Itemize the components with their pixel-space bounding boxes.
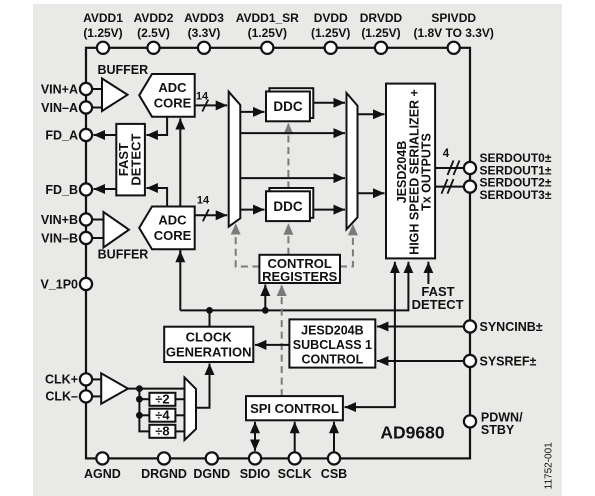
wire SERDOUT pair 1 (435, 161, 464, 176)
svg-text:BUFFER: BUFFER (98, 247, 149, 261)
dashed control bus to output mux 2 (340, 224, 353, 267)
label FAST DETECT (serializer input) (412, 284, 464, 312)
pin CSB (321, 452, 347, 481)
svg-text:ADC: ADC (158, 80, 187, 95)
wire div2 stub (139, 398, 149, 400)
clock input buffer triangle (101, 373, 128, 404)
svg-text:(1.8V TO 3.3V): (1.8V TO 3.3V) (413, 26, 493, 40)
wire div4 stub (139, 414, 149, 416)
svg-text:14: 14 (196, 90, 209, 102)
divider /2 box (149, 392, 175, 407)
wire fast detect to FD_A pin (94, 134, 117, 136)
DDC 1 stack (266, 88, 313, 121)
wire mux1 to DDC2 (240, 209, 264, 211)
svg-text:CORE: CORE (154, 95, 192, 110)
junction div4 (136, 412, 143, 419)
junction clock main (136, 385, 143, 392)
wire ADC A 14-bit bus (195, 90, 228, 111)
wire fast detect to FD_B pin (94, 188, 117, 190)
output mux 2 (347, 93, 358, 229)
pin FD_B (45, 183, 92, 197)
svg-text:V_1P0: V_1P0 (40, 277, 78, 291)
pin SCLK (278, 452, 312, 481)
buffer B amp triangle (104, 212, 130, 248)
pin SYSREF (464, 354, 537, 368)
wire divider feed vertical (139, 389, 149, 432)
wire div2 out (175, 398, 184, 400)
pin SPIVDD (413, 11, 493, 54)
svg-text:AD9680: AD9680 (380, 423, 444, 443)
wire clock vertical to ADC cores (179, 118, 181, 310)
svg-text:(1.25V): (1.25V) (248, 26, 287, 40)
wire SYNCINB to JESD204B subclass control (377, 326, 464, 328)
DDC 2 stack (266, 188, 313, 221)
junction div2 (136, 396, 143, 403)
pin FD_A (45, 128, 92, 142)
wire div4 out (175, 414, 184, 416)
junction clock to clock generation (206, 307, 213, 314)
svg-text:SYNCINB±: SYNCINB± (480, 320, 543, 334)
pin AVDD3 (184, 11, 224, 54)
wire CSB to SPI (333, 422, 335, 453)
svg-text:GENERATION: GENERATION (166, 345, 252, 360)
pin SERDOUT pair 2 (464, 181, 476, 193)
svg-text:DRGND: DRGND (141, 467, 187, 481)
svg-text:DRVDD: DRVDD (360, 11, 403, 25)
wire CLK- (92, 395, 101, 397)
pin VIN+A (41, 82, 92, 96)
svg-text:SYSREF±: SYSREF± (480, 354, 537, 368)
svg-text:AVDD2: AVDD2 (134, 11, 174, 25)
pin DVDD (311, 11, 350, 54)
svg-text:JESD204B: JESD204B (301, 323, 364, 337)
pin SYNCINB (464, 320, 543, 334)
svg-text:CONTROL: CONTROL (301, 353, 363, 367)
wire subclass control to clock generation (255, 344, 290, 346)
wire SDIO bidirectional (254, 422, 256, 451)
ADC core B (139, 207, 195, 250)
wire clock buffer to divider mux (128, 388, 185, 390)
wire mux2 to serializer upper (358, 113, 385, 115)
wire clock distribution horizontal (180, 262, 408, 311)
svg-text:CLK+: CLK+ (45, 373, 78, 387)
pin DRVDD (360, 11, 403, 54)
wire VIN+A (92, 88, 102, 90)
svg-text:DDC: DDC (273, 99, 302, 114)
svg-text:DDC: DDC (273, 199, 302, 214)
svg-text:(3.3V): (3.3V) (188, 26, 221, 40)
wire SCLK to SPI (294, 422, 296, 453)
pin CLK+ (45, 373, 92, 387)
fast detect box (116, 124, 145, 195)
wire SERDOUT pair 2 (435, 179, 464, 194)
svg-text:AGND: AGND (84, 467, 121, 481)
wire SYSREF to JESD204B subclass control (377, 360, 464, 362)
pin VIN+B (41, 213, 92, 227)
svg-text:SCLK: SCLK (278, 467, 312, 481)
pin AVDD1 (83, 11, 123, 54)
svg-text:CLK–: CLK– (45, 390, 78, 404)
svg-text:SUBCLASS 1: SUBCLASS 1 (293, 338, 372, 352)
ADC core A (139, 74, 195, 117)
wire ADC B 14-bit bus (195, 195, 228, 222)
svg-text:VIN–A: VIN–A (41, 101, 78, 115)
svg-text:DGND: DGND (193, 467, 230, 481)
pin VIN-A (41, 101, 92, 115)
clock generation box (164, 327, 253, 362)
wire mux1 bypass line 3 (240, 177, 345, 179)
pin SDIO (240, 452, 271, 481)
pin AVDD1_SR (236, 11, 299, 54)
SPI control box (246, 396, 343, 420)
wire mux2 to serializer lower (358, 192, 385, 194)
JESD204B serializer U1 (386, 84, 435, 259)
svg-text:CLOCK: CLOCK (186, 330, 233, 345)
clock divider mux (185, 378, 197, 441)
svg-text:4: 4 (443, 148, 450, 160)
svg-text:14: 14 (197, 195, 210, 207)
pin PDWN/STBY (464, 410, 523, 437)
svg-text:(1.25V): (1.25V) (361, 26, 400, 40)
svg-text:VIN+A: VIN+A (41, 82, 78, 96)
svg-text:VIN+B: VIN+B (41, 213, 78, 227)
svg-text:DETECT: DETECT (412, 297, 464, 312)
svg-text:FD_B: FD_B (45, 183, 78, 197)
wire DDC2 to mux2 (313, 209, 345, 211)
buffer A amp triangle (102, 79, 128, 112)
wire DDC1 to mux2 (313, 102, 345, 104)
pin VIN-B (41, 231, 92, 245)
divider /4 box (149, 408, 175, 423)
svg-text:DVDD: DVDD (314, 11, 348, 25)
pin CLK- (45, 390, 92, 404)
wire ADC core B to fast detect (146, 188, 167, 207)
dashed control bus to DDCs (287, 123, 289, 255)
svg-text:VIN–B: VIN–B (41, 231, 78, 245)
svg-text:(2.5V): (2.5V) (137, 26, 170, 40)
wire div8 out (175, 430, 184, 432)
svg-text:CORE: CORE (154, 228, 192, 243)
wire VIN-B (92, 237, 104, 239)
dashed control bus to crossbar mux 1 (236, 223, 260, 266)
junction clock to control registers (262, 307, 269, 314)
control registers box (259, 255, 340, 284)
svg-text:÷8: ÷8 (155, 424, 169, 439)
divider /8 box (149, 424, 175, 439)
svg-text:REGISTERS: REGISTERS (262, 269, 337, 284)
svg-text:ADC: ADC (158, 213, 187, 228)
pin SERDOUT pair 1 (464, 162, 476, 174)
wire clock gen top stub (209, 310, 211, 326)
wire VIN+B (92, 219, 104, 221)
pin AGND (84, 452, 121, 481)
svg-text:AVDD3: AVDD3 (184, 11, 224, 25)
wire mux to clock generation (196, 364, 210, 408)
svg-text:(1.25V): (1.25V) (311, 26, 350, 40)
svg-text:SPIVDD: SPIVDD (431, 11, 476, 25)
wire VIN-A (92, 107, 102, 109)
wire mux1 to DDC1 (240, 111, 264, 113)
pin DRGND (141, 452, 187, 481)
svg-text:AVDD1_SR: AVDD1_SR (236, 11, 299, 25)
wire serializer to SPI control (345, 262, 395, 407)
svg-text:SDIO: SDIO (240, 467, 271, 481)
wire to control registers bottom (264, 285, 266, 311)
wire ADC core A to fast detect (146, 117, 167, 135)
wire CLK+ (92, 378, 101, 380)
pin AVDD2 (134, 11, 174, 54)
wire fast detect to serializer (427, 262, 429, 284)
svg-text:SPI CONTROL: SPI CONTROL (250, 401, 339, 416)
svg-text:÷4: ÷4 (155, 408, 170, 423)
JESD204B subclass 1 control box (289, 319, 375, 367)
svg-text:STBY: STBY (481, 423, 515, 437)
svg-text:FD_A: FD_A (45, 128, 78, 142)
pin V_1P0 (40, 277, 92, 291)
svg-text:BUFFER: BUFFER (97, 63, 148, 77)
pin DGND (193, 452, 230, 481)
svg-text:11752-001: 11752-001 (544, 442, 555, 490)
crossbar mux 1 (229, 92, 241, 227)
svg-text:AVDD1: AVDD1 (83, 11, 123, 25)
svg-text:(1.25V): (1.25V) (83, 26, 122, 40)
wire mux1 bypass line 2 (240, 132, 345, 134)
chip outline AD9680 (86, 48, 470, 459)
svg-text:CSB: CSB (321, 467, 347, 481)
dashed control bus SPI to control registers (281, 285, 283, 397)
svg-text:SERDOUT3±: SERDOUT3± (480, 188, 552, 202)
svg-text:÷2: ÷2 (155, 392, 169, 407)
